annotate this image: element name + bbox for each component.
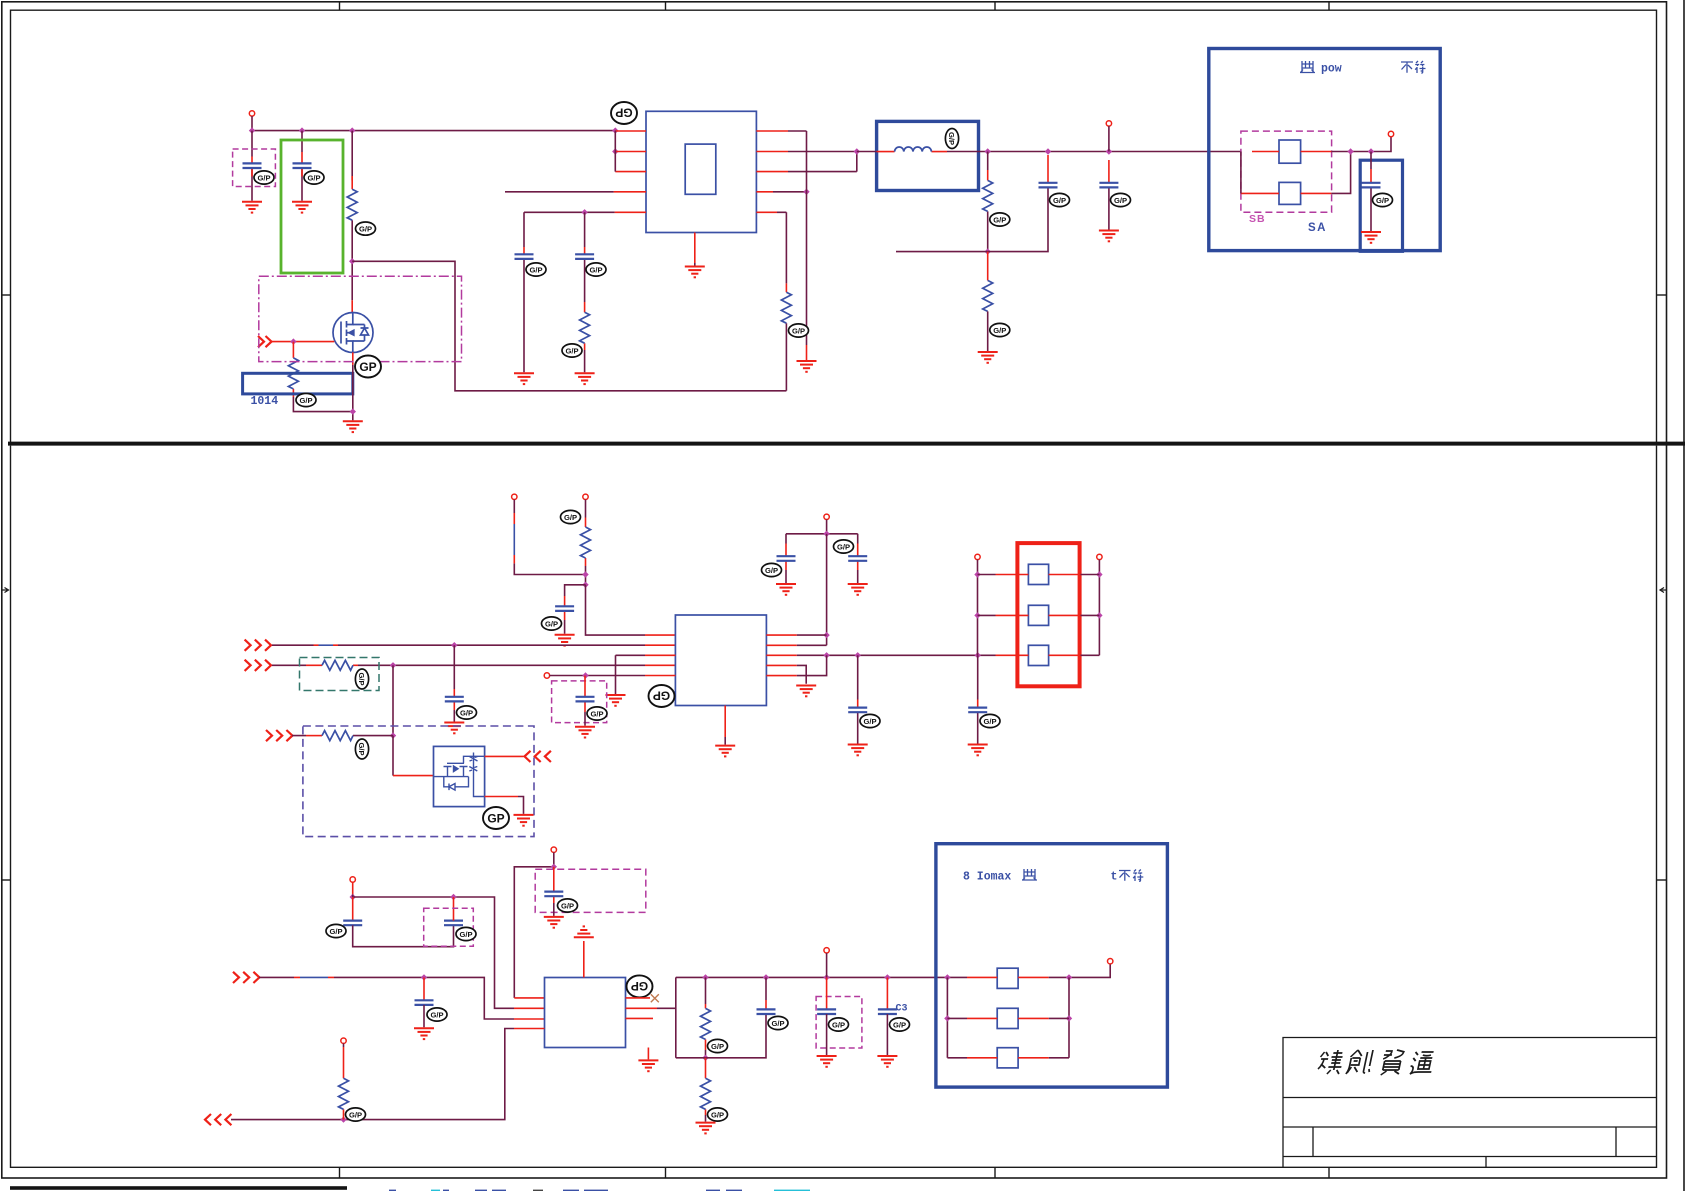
wire EN red stub (806, 345, 808, 360)
wire IN3 bus (292, 735, 393, 737)
ground C18 (414, 1028, 434, 1039)
wire C15 bottom loop (353, 925, 454, 947)
chevron (255, 660, 261, 671)
junction (1066, 1015, 1072, 1021)
wire C14 red stub (977, 700, 979, 708)
wire into L1 (857, 151, 877, 153)
wire FB6 out (1049, 964, 1111, 978)
ground C14 (968, 745, 988, 756)
input chevrons IN4 (233, 972, 239, 983)
ground R6 (978, 352, 998, 363)
highlight box around C1 (233, 149, 276, 187)
label stamp C7 (1373, 193, 1393, 206)
wire C19 red stub (765, 1000, 767, 1009)
wire R1 red stubs (351, 176, 353, 313)
wire U2 right pin1 pin2 maroon (797, 635, 827, 645)
wire U3 pin3 right red stub (626, 1017, 654, 1019)
label stamp R8 (355, 669, 368, 689)
ferrite FB5 (1028, 645, 1048, 665)
dashed box C10 (552, 681, 607, 723)
wire U2 pin1 red (645, 634, 675, 636)
note text CJK yu (1022, 869, 1037, 880)
label stamp C21 (890, 1018, 910, 1031)
resistor R5 (983, 180, 993, 211)
junction (1096, 612, 1102, 618)
wire capacitor C15 red stub (352, 897, 354, 921)
next sheet sliver at page bottom (10, 1186, 810, 1191)
wire C3 red stub (523, 247, 525, 254)
junction (582, 582, 588, 588)
capacitor C16 (444, 921, 463, 926)
top zone ticks (339, 2, 341, 10)
capacitor C20 (817, 1009, 836, 1014)
input chevrons IN1 (245, 640, 251, 651)
wire C13 red stub (857, 700, 859, 708)
wire R5 red stub (987, 170, 989, 180)
ground C12 (848, 584, 868, 595)
junction (451, 642, 457, 648)
wire resistor R5 leads (987, 152, 989, 252)
label stamp C4 (586, 263, 606, 276)
junction (974, 571, 980, 577)
wire output rail column (675, 977, 677, 1057)
label stamp R10 (708, 1039, 728, 1052)
wire VOUT terminal lead (1108, 126, 1110, 229)
junction (450, 894, 456, 900)
wire VOUT2 terminal lead (826, 953, 828, 977)
wire VDD column (826, 534, 828, 646)
wire resistor R2 leads (292, 342, 294, 397)
wire capacitor C20 red stub (826, 977, 828, 1009)
dashed box SB (1241, 131, 1332, 212)
output chevrons OUT2 (205, 1114, 211, 1125)
svg-text:8 Iomax: 8 Iomax (963, 871, 1011, 884)
wire C11 bottom (785, 570, 787, 583)
junction (975, 652, 981, 658)
ground C8 (555, 635, 575, 646)
wire Q2 out bottom red (485, 796, 518, 798)
label stamp C11 (762, 563, 782, 576)
label stamp R12 (346, 1108, 366, 1121)
wire FB ladder right column (1068, 977, 1070, 1057)
svg-text:t: t (1111, 871, 1118, 884)
wire R6 bottom (987, 311, 989, 351)
junction (884, 974, 890, 980)
left zone ticks (2, 294, 11, 296)
wire U3 pin1 red (514, 997, 544, 999)
wire capacitor C10 red leads (584, 676, 586, 713)
junction (582, 672, 588, 678)
wire capacitor C9 leads (453, 645, 455, 721)
wire FB7 red stubs (967, 1017, 1049, 1019)
annotation box Iomax (936, 844, 1168, 1087)
wire FB right column (1098, 560, 1100, 656)
wire FB4 row (978, 614, 1100, 616)
chevron (255, 640, 261, 651)
wire IN1 blue seg (319, 644, 334, 646)
node terminal B2 (551, 847, 556, 852)
chevron (215, 1114, 221, 1125)
wire FB5 red (996, 654, 1081, 656)
wire C2 red stubs (301, 152, 303, 177)
wire U2 bottom pin red (724, 706, 726, 738)
junction source rail (350, 408, 356, 414)
wire FB5 row right (1081, 654, 1100, 656)
capacitor C14 (968, 708, 987, 713)
wire Q2 out bottom maroon (518, 797, 524, 814)
wire U3 pin2 right red (626, 1007, 658, 1009)
junction (249, 127, 255, 133)
junction (974, 612, 980, 618)
wire SB left column (1240, 152, 1242, 194)
capacitor C8 (555, 606, 574, 611)
ground C13 (848, 745, 868, 756)
wire R12 top maroon (343, 1043, 345, 1047)
sheet1 inner frame (11, 10, 1657, 443)
wire IN2 to IN3 column (392, 665, 394, 735)
ferrite FB6 (997, 968, 1018, 988)
junction gate (290, 338, 296, 344)
resistor R3 (580, 312, 590, 343)
capacitor C1 (243, 163, 262, 168)
ground for C2 (292, 202, 312, 213)
ground for C1 (242, 202, 262, 213)
IC U1 (646, 111, 756, 232)
red annotation box (1017, 543, 1079, 686)
ground C17 (544, 917, 564, 928)
junction (1368, 148, 1374, 154)
wire capacitor C6 red stub (1108, 160, 1110, 183)
svg-text:C3: C3 (896, 1004, 908, 1015)
wire FB4 red (996, 614, 1081, 616)
wire C20 bottom (826, 1014, 828, 1055)
wire capacitor C19 leads (765, 977, 767, 1000)
wire A1 blue seg (513, 524, 515, 555)
label stamp U2 rotated (649, 685, 675, 707)
junction (340, 1116, 346, 1122)
label stamp L1 (945, 129, 958, 149)
label stamp C6 (1111, 193, 1131, 206)
label stamp C14 (980, 714, 1000, 727)
wire gate drive red (393, 775, 434, 777)
chevron (253, 972, 259, 983)
chevron (545, 751, 551, 762)
wire C12 bottom (857, 570, 859, 583)
resistor R6 (983, 280, 993, 311)
dashed box load switch (303, 726, 534, 837)
resistor R8 (322, 660, 353, 670)
wire R10 red stubs (705, 1004, 707, 1050)
label stamp C9 (457, 706, 477, 719)
junction (823, 531, 829, 537)
bottom zone ticks (339, 1167, 341, 1178)
capacitor C13 (848, 708, 867, 713)
right zone ticks (1657, 294, 1667, 296)
wire U1 ground pin maroon (694, 263, 696, 266)
ground U2 pin4 (796, 686, 816, 697)
wire resistor R11 red stubs (705, 1058, 707, 1115)
node VIN terminal (249, 111, 254, 116)
annotation box pow (1209, 49, 1440, 251)
wire VIN bus (252, 130, 615, 132)
wire gate drive column (392, 736, 394, 776)
ground U1 (685, 267, 705, 278)
wire R7 red stubs (585, 518, 587, 567)
wire capacitor C2 leads (301, 131, 303, 201)
wire capacitor C14 leads (977, 655, 979, 743)
resistor R2 (288, 358, 298, 389)
wire C7 red stub (1370, 169, 1372, 183)
label stamp C20 (829, 1018, 849, 1031)
wire pin4 ground branch (797, 665, 806, 683)
left mid arrow (2, 588, 9, 593)
wire pin5 red (645, 675, 675, 677)
wire Q1 source maroon (352, 365, 354, 420)
ground U2 pin3 (606, 695, 626, 706)
svg-text:1014: 1014 (251, 395, 279, 408)
label stamp R11 (708, 1108, 728, 1121)
wire U1 left pin column (614, 131, 616, 172)
wire divider rail (896, 187, 1048, 251)
ground C6 (1099, 231, 1119, 242)
wire IN2 bus (272, 664, 645, 666)
wire FB3 row (978, 574, 1100, 576)
junction (855, 652, 861, 658)
capacitor C6 (1099, 183, 1118, 188)
junction (944, 974, 950, 980)
capacitor C3 (515, 254, 534, 259)
label stamp GP (355, 356, 381, 378)
junction (823, 632, 829, 638)
label stamp C19 (768, 1016, 788, 1029)
ground R11 (696, 1123, 716, 1134)
junction (551, 864, 557, 870)
green highlight box (281, 140, 343, 273)
wire U1 right nets maroon (773, 131, 857, 212)
note text CJK mismatch (1401, 61, 1426, 73)
junction divider (985, 248, 991, 254)
node terminal pin5 (544, 673, 549, 678)
power symbol U3 (574, 926, 594, 937)
wire U1 pin5 net (524, 211, 615, 213)
label stamp C2 (304, 171, 324, 184)
node terminal FB left (975, 554, 980, 559)
capacitor C10 (576, 697, 595, 702)
junction (985, 148, 991, 154)
capacitor C7 (1362, 183, 1381, 188)
wire capacitor C11 red stubs (785, 544, 787, 571)
ground Q1 (343, 421, 363, 432)
node terminal out (1108, 959, 1113, 964)
resistor R12 (339, 1078, 349, 1109)
wire R4 red stub (785, 283, 787, 292)
resistor R9 (322, 731, 353, 741)
wire SA bus (1331, 136, 1391, 151)
capacitor C5 (1039, 183, 1058, 188)
junction (612, 148, 618, 154)
ground C3 (514, 373, 534, 384)
wire C9 red stubs (453, 689, 455, 710)
label stamp GP Q2 (483, 807, 509, 829)
output chevrons OUT1 (525, 751, 531, 762)
junction (350, 894, 356, 900)
wire L1 red stubs (877, 151, 947, 153)
capacitor C19 (757, 1009, 776, 1014)
wire SB right column (1331, 152, 1350, 194)
ferrite FB8 (997, 1048, 1018, 1068)
wire FB8 red stubs (967, 1057, 1049, 1059)
label stamp R1 (356, 222, 376, 235)
label stamp U3 rotated (627, 975, 653, 997)
resistor R1 (347, 189, 357, 220)
sheet separator thick line (8, 442, 1685, 446)
junction (1096, 571, 1102, 577)
capacitor C7 box SA (1360, 160, 1402, 251)
wire Q1 source (352, 352, 354, 365)
wire C16 red stub (453, 897, 455, 921)
wire OUT2 bus (231, 1029, 514, 1120)
junction (1045, 148, 1051, 154)
wire U1 left pin stubs red (614, 131, 646, 212)
wire U3 bottom pin red (647, 1048, 649, 1060)
junction (349, 127, 355, 133)
label stamp R9 (355, 739, 368, 759)
wire R11 bottom (705, 1115, 707, 1122)
wire Q2 out top red (485, 755, 524, 757)
wire resistor R7 leads (585, 500, 587, 585)
note text CJK mismatch2 (1119, 870, 1143, 882)
wire capacitor C5 red stub (1047, 155, 1049, 183)
teal dashed box R8 (300, 658, 380, 691)
label stamp R4 (789, 324, 809, 337)
resistor R4 (781, 292, 791, 323)
junction (944, 1015, 950, 1021)
wire U2 pin3 red (645, 654, 675, 656)
wire VOUT2 bus (676, 976, 967, 978)
junction (1347, 148, 1353, 154)
junction (763, 974, 769, 980)
label stamp U1 rotated (611, 102, 637, 124)
ground C9 (444, 723, 464, 734)
IC U1 inner pad (685, 144, 716, 194)
wire U3 power pin red (583, 941, 585, 978)
wire U3 pin4 red (514, 1028, 545, 1030)
wire SW to feedback elbow (352, 261, 786, 391)
ferrite component FB2 (1279, 182, 1301, 204)
wire C21 bottom (886, 1014, 888, 1055)
junction (582, 571, 588, 577)
wire capacitor C21 red stub (886, 977, 888, 1009)
node terminal VOUT2 (824, 948, 829, 953)
wire U1 pin4 net (505, 191, 614, 193)
label stamp C17 (558, 899, 578, 912)
junction (823, 974, 829, 980)
wire FB7 row (947, 1017, 1069, 1019)
label stamp C3 (526, 263, 546, 276)
junction (421, 974, 427, 980)
ferrite FB7 (997, 1008, 1018, 1028)
label stamp R6 (990, 323, 1010, 336)
label stamp C12 (834, 540, 854, 553)
chevron (276, 730, 282, 741)
capacitor C9 (445, 697, 464, 702)
wire IN4 blue seg (300, 976, 328, 978)
dashed box around Q1 (259, 276, 462, 361)
wire R2 bottom to source rail (293, 397, 352, 412)
label stamp R2 (296, 393, 316, 406)
junction feedback node (803, 189, 809, 195)
junction inductor node (854, 148, 860, 154)
wire capacitor C3 leads (523, 212, 525, 372)
wire FB8 row (947, 1057, 1069, 1059)
wire capacitor C12 red stubs (857, 544, 859, 571)
page right edge line (1683, 0, 1685, 1191)
label stamp C13 (860, 714, 880, 727)
label stamp C8 (542, 617, 562, 630)
wire FB left column (977, 560, 979, 656)
node terminal SA (1388, 131, 1393, 136)
wire FB2 red stubs (1241, 192, 1332, 194)
right mid arrow (1660, 588, 1667, 593)
junction (299, 127, 305, 133)
capacitor C21 (878, 1009, 897, 1014)
ground R3 (575, 373, 595, 384)
wire IN1 bus (272, 644, 645, 646)
label stamp C5 (1050, 193, 1070, 206)
resistor R10 (701, 1008, 711, 1039)
wire C18 bottom (423, 1005, 425, 1027)
wire FB6 red stubs (967, 976, 1049, 978)
capacitor C18 (415, 1000, 434, 1005)
wire divider rail (676, 1014, 766, 1058)
wire EN column (806, 131, 808, 345)
ground U2 (715, 746, 735, 757)
wire IN2 red segs (306, 664, 675, 666)
wire Q1 gate red (271, 341, 334, 343)
wire VIN vertical (251, 116, 253, 131)
wire B1 bus (353, 895, 514, 1009)
junction (612, 127, 618, 133)
junction (390, 732, 396, 738)
wire resistor R10 leads (705, 977, 707, 1057)
label stamp C10 (587, 707, 607, 720)
wire FB1 red stubs (1252, 151, 1331, 153)
wire C17 bottom (553, 903, 555, 916)
dashed box C17 (535, 869, 646, 912)
junction pin5 net (581, 209, 587, 215)
wire C10 bottom (584, 712, 586, 726)
chevron (243, 972, 249, 983)
wire U1 right pin stubs red (756, 131, 788, 212)
ferrite FB4 (1028, 605, 1048, 625)
junction (702, 1055, 708, 1061)
wire U2 bottom pin maroon (724, 737, 726, 745)
wire capacitor C13 leads (857, 655, 859, 743)
node terminal pullup (341, 1038, 346, 1043)
capacitor C2 (293, 163, 312, 168)
capacitor C17 (544, 892, 563, 897)
note text CJK pow (1300, 61, 1315, 73)
label stamp R5 (990, 213, 1010, 226)
wire resistor R12 red leads (343, 1047, 345, 1120)
wire capacitor C8 branch (565, 585, 586, 634)
junction (1066, 974, 1072, 980)
wire A1 lead maroon (514, 500, 585, 575)
ground C7 (1361, 232, 1381, 243)
wire capacitor C18 red stub (423, 977, 425, 1000)
wire C7 leads (1370, 152, 1372, 232)
sheet2 inner frame (11, 446, 1657, 1168)
